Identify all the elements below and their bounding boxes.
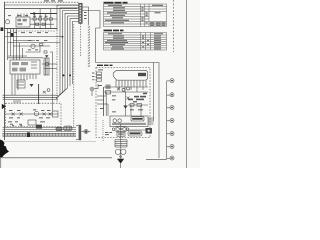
wire drop3	[140, 105, 142, 116]
node pad6	[167, 145, 174, 149]
wire hbus3	[3, 98, 59, 100]
wire riser c3	[13, 29, 15, 60]
wire y58	[8, 57, 44, 59]
wire volume link	[126, 129, 146, 131]
wire box pins up	[18, 14, 27, 18]
resistor R1	[33, 18, 36, 20]
capacitor C6	[127, 97, 130, 100]
wire dashed divider	[173, 0, 175, 52]
capacitor block C4	[44, 58, 49, 75]
relay RL1	[53, 111, 59, 117]
wire riser c4	[16, 29, 18, 60]
wire y42	[8, 42, 61, 44]
wire row2	[30, 23, 54, 25]
connector CN1 body	[79, 3, 83, 23]
block dark jack	[146, 128, 153, 134]
speaker pair	[115, 149, 126, 154]
resistor cluster R10	[128, 93, 147, 103]
wire y40	[13, 39, 35, 41]
connector jack rows	[92, 72, 102, 81]
diode D5	[43, 113, 46, 116]
wire baseline y157	[0, 157, 112, 159]
node jack diamond	[81, 130, 90, 134]
wire bus y28	[5, 28, 58, 30]
label marks row y15	[8, 15, 48, 17]
wire drops top to row1	[35, 9, 51, 18]
ground main	[117, 159, 124, 168]
wire comp row1	[104, 86, 148, 88]
switch S1	[6, 20, 10, 24]
wire dashed pair down2	[89, 26, 91, 68]
wire fan pin5	[62, 16, 79, 93]
wire drop2	[130, 105, 132, 116]
wire hbus1	[3, 94, 59, 96]
wire loop to right block	[82, 11, 159, 159]
label LINE IN jack text	[97, 65, 113, 66]
wire left edge vertical	[4, 2, 6, 140]
wire riser c2	[10, 29, 12, 56]
wire thick bus y13	[30, 13, 57, 15]
node pad2	[167, 93, 174, 97]
wire dashed riser A	[73, 24, 75, 127]
wire right border	[186, 0, 188, 168]
transformer T1	[115, 140, 127, 147]
wire fan pin7	[73, 21, 79, 84]
cable shield band	[3, 133, 77, 136]
block REC switch	[17, 80, 25, 88]
wire loop bottom	[146, 158, 167, 160]
wire drop r1c	[45, 20, 47, 29]
wire stub x52	[50, 52, 53, 111]
wire drop r1b	[39, 20, 41, 29]
label table2 title	[104, 30, 124, 32]
wire riser c5	[19, 43, 21, 60]
block tone unit	[110, 116, 148, 127]
label table1 title	[104, 2, 128, 4]
label volume2	[128, 131, 142, 136]
wire dashed top bus	[4, 1, 79, 3]
wire bottom bus 3	[3, 131, 77, 133]
wire dashed y31	[10, 30, 56, 32]
label CN1 pins	[84, 12, 87, 19]
capacitor bank	[106, 85, 111, 95]
wire bottom bus 2	[3, 129, 77, 131]
node dark sq	[11, 33, 14, 37]
node pad1	[167, 79, 174, 83]
label table1 rows	[105, 5, 166, 26]
wire center drop	[125, 92, 127, 116]
wire top line 2	[5, 8, 78, 10]
wire fan pin4	[60, 13, 79, 95]
wire y36	[5, 36, 64, 38]
label marks y49	[28, 40, 47, 50]
wire y46	[13, 45, 50, 47]
wire y56 link	[8, 55, 28, 57]
wire fan pin3	[58, 11, 79, 97]
wire box left stubs	[97, 96, 108, 116]
wire U1 pins bottom	[12, 74, 36, 95]
wire riser c1	[7, 29, 9, 60]
wire chain spine	[120, 124, 122, 159]
wire dashed stub x103	[102, 120, 104, 141]
node pad7	[167, 156, 174, 160]
wire thick center drop	[38, 84, 40, 104]
block dark comp	[36, 125, 42, 129]
transistor Q1	[31, 44, 35, 48]
resistor R5	[42, 23, 45, 25]
diode D6	[49, 113, 52, 116]
fuse F2	[20, 124, 22, 127]
block dashed box B	[96, 68, 150, 138]
wire fan pin6	[70, 19, 79, 86]
label fuse marks	[10, 123, 22, 126]
label marks row y32	[7, 31, 48, 34]
wire top line B+	[5, 4, 78, 6]
wire right vert inner	[153, 63, 155, 122]
node pad5	[167, 132, 174, 136]
wire dashed riser B	[79, 23, 81, 56]
resistor R2	[39, 18, 42, 20]
wire pads spine	[166, 81, 168, 159]
block dashed box A	[6, 103, 62, 126]
IC U1	[10, 60, 40, 74]
wire inner left drop2	[105, 92, 107, 116]
wire dashed pair down1	[87, 24, 89, 68]
wire fan pin1	[57, 5, 79, 30]
diode D2	[43, 89, 50, 94]
label chain left marks	[105, 132, 112, 135]
table voltage chart 1	[104, 4, 167, 27]
wire connector stub right	[82, 7, 88, 24]
node pad3	[167, 106, 174, 110]
block SW unit	[16, 17, 30, 27]
node left junction	[1, 27, 4, 31]
wire row1	[30, 18, 57, 20]
wire U2 pins	[116, 80, 146, 92]
diode D1	[42, 63, 71, 77]
wire drop r1d	[50, 20, 52, 29]
wire hbus2	[3, 96, 59, 98]
diode D4	[20, 113, 23, 116]
wire diode row	[6, 113, 59, 115]
cable ferrite capsule	[64, 126, 73, 130]
resistor R4	[36, 23, 39, 25]
capacitor C8	[117, 132, 125, 136]
wire drop r1a	[34, 20, 36, 29]
ground sym B	[123, 106, 128, 109]
node arrow left	[2, 104, 6, 109]
diode D3	[12, 113, 15, 116]
ground arrow	[30, 84, 34, 87]
wire bend c6	[22, 48, 24, 58]
capacitor C3	[44, 51, 47, 53]
wire comp row2	[104, 91, 148, 93]
capacitor C1	[44, 18, 47, 20]
wire fan pin2	[56, 8, 79, 99]
wire bottom bus 1	[3, 127, 77, 129]
table voltage chart 2	[104, 33, 167, 51]
transistor Q2	[34, 111, 38, 115]
label top note	[44, 0, 63, 1]
wire dotted y141	[3, 140, 97, 142]
node junction arrow	[34, 12, 37, 15]
label table2 rows	[105, 33, 163, 49]
wire inner left drop	[103, 87, 105, 116]
label marks boxB	[98, 69, 143, 112]
wire y52 link	[26, 46, 41, 52]
resistor R3	[40, 43, 43, 45]
connector band end bracket	[76, 125, 81, 140]
fuse F1	[12, 124, 14, 127]
capacitor C5	[117, 87, 130, 91]
ground mark small	[45, 55, 49, 57]
cable ferrite capsule 2	[56, 127, 62, 131]
wire dashed riser x57	[56, 30, 58, 103]
node pad4	[167, 119, 174, 123]
ink blot	[0, 140, 9, 158]
node term	[120, 156, 122, 158]
label volume1	[131, 117, 144, 121]
wire tone out lines	[148, 118, 154, 124]
potentiometer VR1	[112, 127, 129, 132]
capacitor C2	[49, 18, 52, 20]
node test point	[90, 84, 98, 96]
wire hatch drop	[14, 100, 20, 103]
IC U2	[113, 70, 147, 80]
label marks diode row	[8, 109, 50, 122]
node dark square	[27, 132, 30, 137]
page edge smudge	[0, 156, 1, 168]
block osc box	[28, 120, 36, 125]
capacitor C7	[128, 104, 148, 107]
